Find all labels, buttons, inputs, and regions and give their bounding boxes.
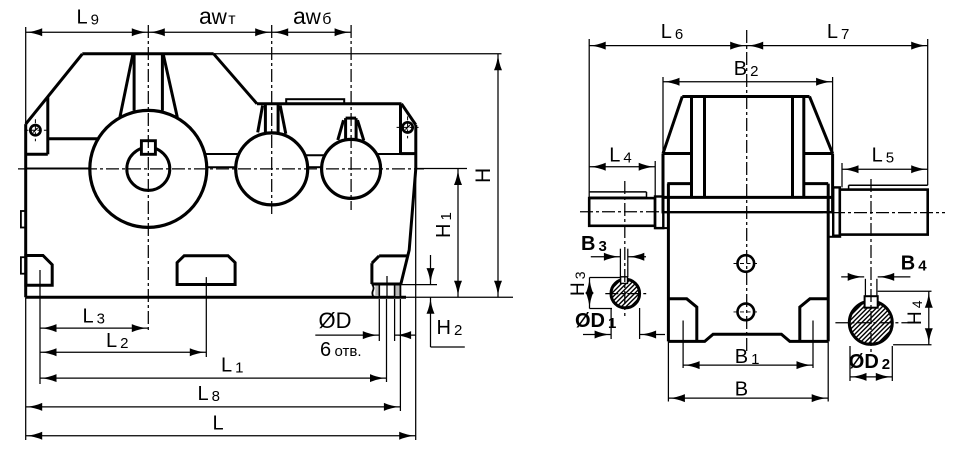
svg-text:L6: L6 bbox=[661, 21, 683, 43]
svg-text:H4: H4 bbox=[905, 300, 926, 325]
svg-text:w: w bbox=[305, 6, 322, 29]
svg-text:H: H bbox=[472, 168, 495, 183]
svg-text:L4: L4 bbox=[609, 145, 631, 167]
svg-text:B2: B2 bbox=[734, 58, 759, 80]
svg-text:B3: B3 bbox=[581, 233, 607, 255]
svg-text:L7: L7 bbox=[827, 21, 849, 43]
svg-text:L1: L1 bbox=[221, 355, 243, 377]
svg-text:L8: L8 bbox=[198, 383, 220, 405]
svg-text:H1: H1 bbox=[433, 212, 455, 238]
svg-text:L9: L9 bbox=[77, 7, 99, 29]
svg-text:B4: B4 bbox=[901, 253, 927, 275]
svg-text:б: б bbox=[322, 11, 331, 28]
svg-text:ØD: ØD bbox=[319, 308, 352, 333]
svg-text:L5: L5 bbox=[872, 145, 894, 167]
svg-text:т: т bbox=[228, 11, 236, 28]
svg-text:ØD1: ØD1 bbox=[575, 310, 616, 332]
svg-text:H3: H3 bbox=[568, 271, 589, 296]
svg-text:H2: H2 bbox=[437, 317, 463, 339]
svg-text:ØD2: ØD2 bbox=[849, 351, 890, 373]
svg-text:B1: B1 bbox=[735, 346, 760, 368]
svg-text:L: L bbox=[213, 413, 224, 435]
svg-text:a: a bbox=[199, 3, 212, 29]
svg-text:B: B bbox=[735, 379, 748, 401]
svg-text:L2: L2 bbox=[106, 330, 128, 352]
svg-text:отв.: отв. bbox=[335, 343, 362, 360]
svg-text:L3: L3 bbox=[83, 306, 105, 328]
svg-text:a: a bbox=[293, 3, 306, 29]
svg-text:w: w bbox=[211, 6, 228, 29]
svg-text:6: 6 bbox=[320, 339, 331, 361]
